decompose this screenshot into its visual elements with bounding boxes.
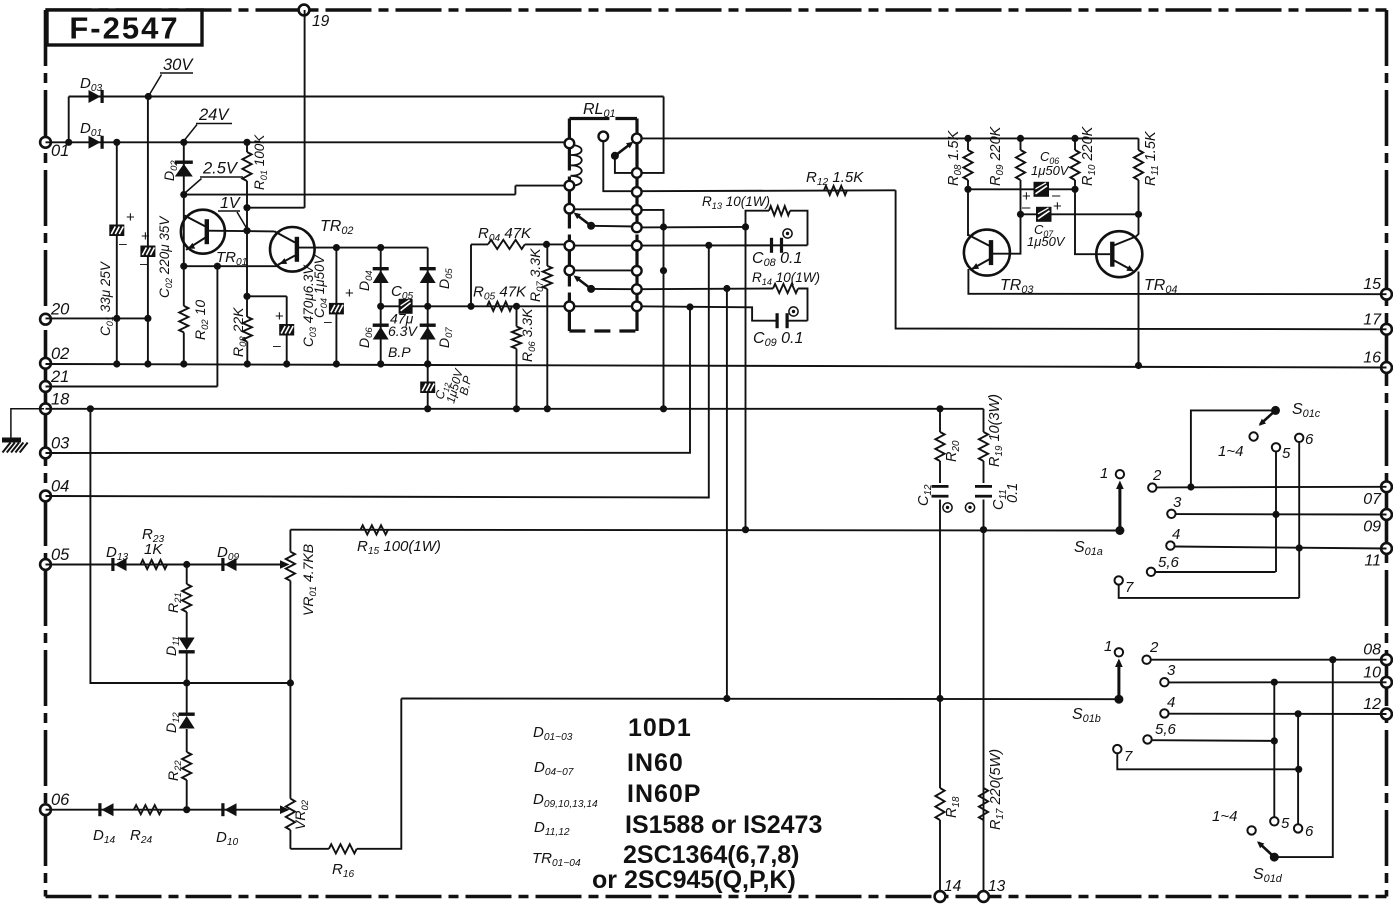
svg-text:+: + [1053,198,1062,215]
svg-text:7: 7 [1125,579,1134,596]
node d5-3wire [1271,679,1278,686]
terminal 08 [1381,654,1392,665]
terminal 18 [40,403,51,414]
svg-text:07: 07 [1363,491,1382,508]
relay pin L6 [565,302,575,312]
svg-text:R08 1.5K: R08 1.5K [946,129,964,186]
node 6-4wire [1296,544,1303,551]
node base wire [243,227,250,234]
wire drop wireC to 03 [46,307,691,453]
node R14 drop [723,285,730,292]
capacitor C11 [975,485,992,488]
switch S01b contact 7 wire [1113,745,1121,753]
svg-text:1~4: 1~4 [1212,808,1237,825]
svg-text:1μ50V: 1μ50V [1031,163,1070,178]
svg-text:1K: 1K [144,541,163,558]
svg-text:–: – [273,337,281,353]
wire 01 rail [46,141,570,143]
node 21 riser [214,263,221,270]
terminal 10 [1381,677,1392,688]
svg-text:R09 220K: R09 220K [988,125,1006,186]
svg-text:4: 4 [1172,526,1180,543]
wire C04 branch [335,248,337,364]
switch S01d contact 6 riser [1294,824,1302,832]
node C04 branch [333,244,340,251]
terminal 04 [40,491,51,502]
wiper arrow VR01 [280,560,290,569]
svg-text:+: + [275,308,284,325]
wire TR03 base [993,214,1021,253]
node diode column bottom [183,806,190,813]
wire S01c to 2-wire [1191,410,1276,487]
terminal 07 [1381,481,1392,492]
node 30V [145,93,152,100]
node S01c drop on 2-wire [1187,483,1194,490]
resistor R24 [134,805,162,814]
svg-text:5,6: 5,6 [1155,721,1177,738]
relay pin NC2 [565,204,575,214]
wire D03 branch [68,97,70,143]
svg-text:2SC1364(6,7,8): 2SC1364(6,7,8) [623,841,800,869]
svg-text:IS1588 or IS2473: IS1588 or IS2473 [625,811,822,839]
resistor R02 [179,306,188,333]
resistor R03 [243,317,252,342]
terminal 05 [40,559,51,570]
node C12bp-18rail [424,360,431,367]
svg-text:+: + [126,209,135,226]
ground [11,409,44,438]
svg-text:11: 11 [1364,553,1381,570]
node D05 mid [424,303,431,310]
node C02-02rail [144,360,151,367]
node d6-4wire [1295,710,1302,717]
diode D10 [225,803,237,816]
svg-text:20: 20 [50,301,70,319]
svg-text:3: 3 [1173,494,1182,511]
svg-text:2.5V: 2.5V [202,160,239,178]
wire 06 rail [46,809,286,811]
diode D12 [179,713,195,716]
capacitor C03 [279,324,294,336]
wire drop C08 to 04 [46,245,709,497]
wire C01 branch [116,142,118,364]
switch S01c contact 5 riser [1272,443,1280,451]
relay pin R4 [632,205,642,215]
wire TR04 emitter drop [1138,272,1140,366]
svg-text:10: 10 [1363,664,1381,681]
svg-text:3: 3 [1167,662,1176,679]
relay pin L4 [565,241,575,251]
wire drop loop1 to R15 rail [745,227,747,530]
terminal 06 [40,804,51,815]
wire 02-16 rail [46,364,1387,368]
node R08 top [964,135,971,142]
resistor R07 [546,244,548,266]
diode D06 [373,324,389,327]
resistor R20 [939,409,941,432]
wire base node vertical [246,208,248,317]
switch S01a contact 5,6 wire [1147,568,1155,576]
node D07-02rail [424,360,431,367]
capacitor C01 [109,225,124,237]
wire relay pin4 drop to 18 rail [637,210,664,409]
title box F-2547 [47,10,202,45]
terminal 03 [40,448,51,459]
relay internal rows [569,208,636,210]
svg-text:24V: 24V [198,106,230,124]
svg-text:7: 7 [1124,748,1133,765]
svg-text:4: 4 [1167,694,1175,711]
transistor TR02 [270,227,315,272]
switch S01b common [1114,695,1123,704]
svg-text:0.1: 0.1 [1005,483,1021,503]
terminal 19 [299,5,310,16]
wire relay pin8 to R14 [637,288,773,291]
node R14drop-S01b [723,695,730,702]
svg-text:21: 21 [50,368,69,386]
diode D05 [420,267,436,270]
terminal 16 [1381,362,1392,373]
node C01-20 [113,315,120,322]
switch S01a common [1115,526,1124,535]
svg-text:1V: 1V [220,195,241,212]
terminal 17 [1381,324,1392,335]
wire R04 left leg [470,244,472,306]
diode D14 [102,803,114,816]
svg-text:+: + [141,228,150,245]
diode D02 [175,161,193,164]
relay pin R9 [632,302,642,312]
wire D02 to relay coil [184,194,516,196]
svg-text:1μ50V: 1μ50V [1027,234,1066,249]
relay pin coil bottom [565,181,575,191]
potentiometer VR01 [289,530,291,552]
diode D13 [115,558,127,571]
capacitor C06 [1034,182,1050,197]
node S01d riser on 2-wire [1329,656,1336,663]
wire C07 row [1021,213,1139,215]
node C07 left [1017,211,1024,218]
node C08 drop [705,242,712,249]
resistor R15 [360,525,388,534]
node C09 drop [686,303,693,310]
wire C05 rail [381,305,570,307]
node R10 top [1071,135,1078,142]
resistor R18 [935,788,944,820]
wire 30V leader [148,75,161,97]
node pin4-18rail [660,405,667,412]
wire 18drop-VR wire [90,409,290,683]
switch S01a contact 4 wire [1166,541,1174,549]
diode D03 [89,90,101,103]
svg-text:05: 05 [51,546,70,564]
terminal 11 [1381,543,1392,554]
svg-text:12: 12 [1363,696,1381,713]
transistor TR04 [1096,231,1142,277]
svg-text:6: 6 [1305,431,1314,448]
svg-text:13: 13 [988,878,1006,895]
diode D11 [179,638,195,651]
resistor R05 [487,302,512,311]
svg-text:R10 220K: R10 220K [1080,125,1098,186]
wire TR03 emitter to 15 [968,269,1386,294]
wire TR04 collector riser [1136,214,1139,236]
switch S01b contact 3 wire [1160,678,1168,686]
node 20-C02 [144,315,151,322]
switch S01c contact 6 riser [1295,434,1303,442]
resistor R21 [186,565,188,585]
svg-text:14: 14 [944,878,962,895]
svg-text:5,6: 5,6 [1158,554,1180,571]
svg-text:5: 5 [1281,815,1290,832]
svg-text:–: – [1022,199,1031,216]
switch S01d contact 5 riser [1270,817,1278,825]
relay pin R5 [632,223,642,233]
svg-text:16: 16 [1363,350,1381,367]
svg-text:C08 0.1: C08 0.1 [752,250,802,269]
resistor R06 [516,306,518,326]
terminal 14 [935,891,946,902]
svg-text:R12 1.5K: R12 1.5K [806,169,864,188]
transistor TR01 [181,210,225,254]
relay pin R8 [632,284,642,294]
capacitor C12 (0.1) [932,485,949,488]
diode D07 [420,324,436,327]
switch S01b contact 4 wire [1160,709,1168,717]
relay pin NC3 [565,266,575,276]
svg-text:30V: 30V [163,56,194,74]
node C06 left [964,186,971,193]
svg-text:10D1: 10D1 [628,714,692,742]
node D06-02rail [377,360,384,367]
svg-text:04: 04 [51,478,69,496]
relay pin R7 [632,266,642,276]
svg-text:1: 1 [1100,465,1108,482]
svg-text:15: 15 [1363,276,1381,293]
node D03-01 [65,139,72,146]
wire 19 drop [304,10,306,208]
svg-text:18: 18 [51,390,70,408]
node R09 top [1017,135,1024,142]
wire 21 rail [46,386,218,388]
wire relay pin2 to 30V [637,97,664,173]
wire 30V rail [69,96,664,98]
relay pin R6 [632,241,642,251]
svg-text:2: 2 [1152,467,1162,484]
svg-text:6: 6 [1305,823,1314,840]
terminal 15 [1381,289,1392,300]
wire R08 top rail [637,137,1139,139]
svg-text:09: 09 [1363,519,1381,536]
relay arm 3 [587,285,595,293]
node VR01 bottom [287,679,294,686]
wire C03 tee [247,295,287,297]
terminal 09 [1381,509,1392,520]
node diode column mid [183,679,190,686]
wire C02 branch [147,97,149,365]
node C01-02rail [113,360,120,367]
wire 24V leader [184,125,197,142]
svg-text:5: 5 [1282,445,1291,462]
capacitor C02 [140,246,155,258]
node C01 branch [113,139,120,146]
relay arm 1 [611,152,619,160]
potentiometer VR02 [289,683,291,799]
svg-text:or 2SC945(Q,P,K): or 2SC945(Q,P,K) [592,866,796,894]
node R07-18rail [544,405,551,412]
terminal 01 [40,137,51,148]
svg-text:08: 08 [1363,642,1381,659]
svg-text:6.3V: 6.3V [388,323,418,339]
resistor R22 [186,729,188,752]
svg-text:R04 47K: R04 47K [478,225,532,244]
resistor R04 [471,243,488,245]
svg-text:R11 1.5K: R11 1.5K [1143,130,1161,186]
resistor R17 [979,788,988,820]
wire relay armA to loop1 [637,226,746,229]
node D02 branch [180,139,187,146]
node D02 low [180,191,187,198]
switch S01b contact 1 [1115,648,1123,656]
switch S01a contact 1 [1116,470,1124,478]
svg-text:03: 03 [51,435,70,453]
svg-text:R01 100K: R01 100K [252,134,269,190]
svg-text:IN60: IN60 [627,749,684,777]
svg-text:02: 02 [51,345,69,363]
node armA loop1 [742,223,749,230]
wire 18 rail [46,408,984,410]
resistor R09 [1020,138,1022,150]
wire relay pin9 to C09 [637,306,776,320]
wire TR02 base rail [297,247,428,249]
terminal 13 [978,891,989,902]
relay pin R3 [632,187,642,197]
svg-text:1~4: 1~4 [1218,443,1243,460]
relay pin R2 [632,168,642,178]
terminal 02 [40,358,51,369]
node R02-02rail [180,360,187,367]
relay pin R1 [632,134,642,144]
capacitor C07 [1036,207,1052,222]
wire 05 rail [46,564,286,566]
switch S01b contact 2 wire [1142,656,1150,664]
switch S01c [1271,406,1280,415]
node R18 top [936,695,943,702]
wire D05-D07 branch [427,248,429,364]
switch S01a contact 2 wire [1148,483,1156,491]
relay RL01 box [569,119,637,332]
resistor R08 [967,138,969,150]
node C07 right [1135,211,1142,218]
node R04 right [543,241,550,248]
wiper arrow VR02 [280,805,290,814]
svg-text:R05 47K: R05 47K [473,284,527,303]
wire TR01 base [207,230,275,233]
node diode column top [183,561,190,568]
wire C06 row [968,188,1075,190]
capacitor C09 [776,313,779,328]
svg-text:B.P: B.P [388,344,411,360]
resistor R14 [773,284,798,293]
switch S01a contact 3 wire [1167,510,1175,518]
resistor R23 [141,560,168,569]
svg-text:F-2547: F-2547 [69,11,179,46]
node pin4-nc3wire [660,267,667,274]
node C03 tee [243,293,250,300]
terminal 20 [40,314,51,325]
node R06 top [513,303,520,310]
node C06 right [1071,186,1078,193]
resistor R13 loop [746,211,770,227]
terminal 12 [1381,709,1392,720]
node D04 mid [377,303,384,310]
node R04-R05 [467,303,474,310]
capacitor C12 (1u50V B.P) [427,364,429,409]
capacitor C05 [399,299,413,314]
wire R15 rail (S01a common) [290,529,1120,532]
node d6-7wire [1295,766,1302,773]
capacitor C08 [770,238,773,253]
switch S01d [1270,853,1279,862]
resistor R01 [246,142,248,152]
svg-text:–: – [119,235,127,251]
node D04 top [377,244,384,251]
relay pin coil top [565,139,575,149]
resistor R11 [1138,138,1140,150]
node C11-R15rail [980,526,987,533]
wire drop R14 to S01b rail [726,289,728,699]
node loop1drop-R15 [742,526,749,533]
wire TR04 base [1075,189,1110,254]
wire D04-D06 branch [380,248,382,364]
node R06-18rail [513,405,520,412]
diode D04 [373,267,389,270]
node C04-02rail [333,360,340,367]
svg-text:–: – [140,255,148,271]
terminal 21 [40,381,51,392]
wire S01b rail [401,698,1119,701]
node R20 top [936,405,943,412]
wire 2.5V leader [184,179,202,195]
svg-text:IN60P: IN60P [627,780,701,808]
node TR04-16rail [1135,362,1142,369]
resistor R12 [824,186,847,195]
wire emitter rail [184,265,277,267]
node d5-56wire [1271,737,1278,744]
resistor R16 [290,848,329,850]
node R01 bottom [243,204,250,211]
svg-text:2: 2 [1149,639,1159,656]
svg-text:C09 0.1: C09 0.1 [753,330,803,349]
switch S01a contact 7 wire [1115,576,1123,584]
resistor R10 [1074,138,1076,150]
wire 20 rail [46,317,148,319]
node C03-02rail [283,360,290,367]
node 18 ground drop [87,405,94,412]
wire R12 drop to 17 [896,190,1387,329]
svg-text:1: 1 [1104,638,1112,655]
wire R12 rail [637,189,896,192]
wire 1V leader [237,212,247,228]
relay coil [569,145,581,186]
diode D09 [225,558,237,571]
diode D01 [89,136,101,149]
relay center pin [599,132,609,142]
wire S01d to 2-wire [1274,660,1333,857]
capacitor C04 [329,303,344,315]
transistor TR03 [964,230,1010,276]
wire D02 branch [183,142,185,194]
